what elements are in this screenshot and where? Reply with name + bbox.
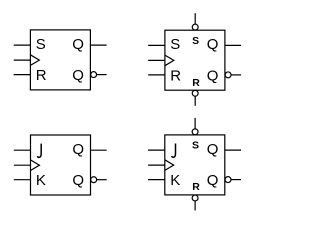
svg-text:R: R <box>170 67 181 84</box>
U1 pin Q wire <box>90 44 106 46</box>
U2 preset pin S-bar wire <box>194 13 196 24</box>
U4 pin K wire <box>148 179 165 181</box>
svg-text:Q: Q <box>72 36 84 53</box>
SR flip-flop U1 <box>14 30 107 90</box>
U3 pin J wire <box>14 149 31 151</box>
U2 pin Q wire <box>225 44 241 46</box>
U4 pin Q wire <box>225 149 241 151</box>
svg-text:Q: Q <box>72 141 84 158</box>
U4 pin Q-bar inversion bubble <box>225 177 231 183</box>
svg-text:Q: Q <box>207 172 219 189</box>
U2 body <box>165 30 225 90</box>
svg-text:S: S <box>170 36 180 53</box>
U2 pin Q-bar wire <box>231 74 241 76</box>
U2 pin R wire <box>148 74 165 76</box>
svg-text:Q: Q <box>72 67 84 84</box>
U1 pin R wire <box>14 74 31 76</box>
U4 body <box>165 135 225 195</box>
U4 preset pin S-bar wire <box>194 118 196 129</box>
U3 pin Q-bar inversion bubble <box>91 177 97 183</box>
U3 clock wire <box>14 164 31 166</box>
svg-text:S: S <box>192 35 199 47</box>
U2 clear pin R-bar wire <box>194 96 196 106</box>
U2 clock edge-trigger triangle <box>165 55 174 66</box>
U3 clock edge-trigger triangle <box>31 160 40 171</box>
U2 preset inversion bubble <box>192 24 198 30</box>
U3 label J <box>37 144 41 158</box>
U2 pin S wire <box>148 44 165 46</box>
U3 pin Q wire <box>91 149 107 151</box>
svg-text:Q: Q <box>207 36 219 53</box>
svg-text:S: S <box>192 140 199 152</box>
U1 pin S wire <box>14 44 31 46</box>
U2 clear inversion bubble <box>192 90 198 96</box>
SR flip-flop with preset and clear U2 <box>148 13 241 106</box>
U1 body <box>30 30 90 90</box>
U4 clear pin R-bar wire <box>194 201 196 211</box>
U1 clock edge-trigger triangle <box>30 55 39 66</box>
svg-text:R: R <box>192 77 200 89</box>
svg-text:Q: Q <box>207 141 219 158</box>
U4 pin Q-bar wire <box>231 179 241 181</box>
svg-text:Q: Q <box>72 172 84 189</box>
svg-text:R: R <box>192 181 200 193</box>
JK flip-flop with preset and clear U4 <box>148 118 241 211</box>
svg-text:R: R <box>36 67 47 84</box>
svg-text:S: S <box>36 36 46 53</box>
U4 pin J wire <box>148 149 165 151</box>
svg-text:K: K <box>36 172 46 189</box>
U1 clock wire <box>14 59 31 61</box>
U4 clock edge-trigger triangle <box>165 160 174 171</box>
U2 clock wire <box>148 59 165 61</box>
U3 pin Q-bar wire <box>97 179 107 181</box>
U3 body <box>31 135 91 195</box>
U1 pin Q-bar wire <box>97 74 107 76</box>
U4 label J <box>172 144 176 158</box>
svg-text:Q: Q <box>207 67 219 84</box>
svg-text:K: K <box>170 172 180 189</box>
U4 clear inversion bubble <box>192 195 198 201</box>
U1 pin Q-bar inversion bubble <box>91 72 97 78</box>
U2 pin Q-bar inversion bubble <box>225 72 231 78</box>
U4 clock wire <box>148 164 165 166</box>
U3 pin K wire <box>14 179 31 181</box>
JK flip-flop U3 <box>14 135 107 195</box>
U4 preset inversion bubble <box>192 129 198 135</box>
